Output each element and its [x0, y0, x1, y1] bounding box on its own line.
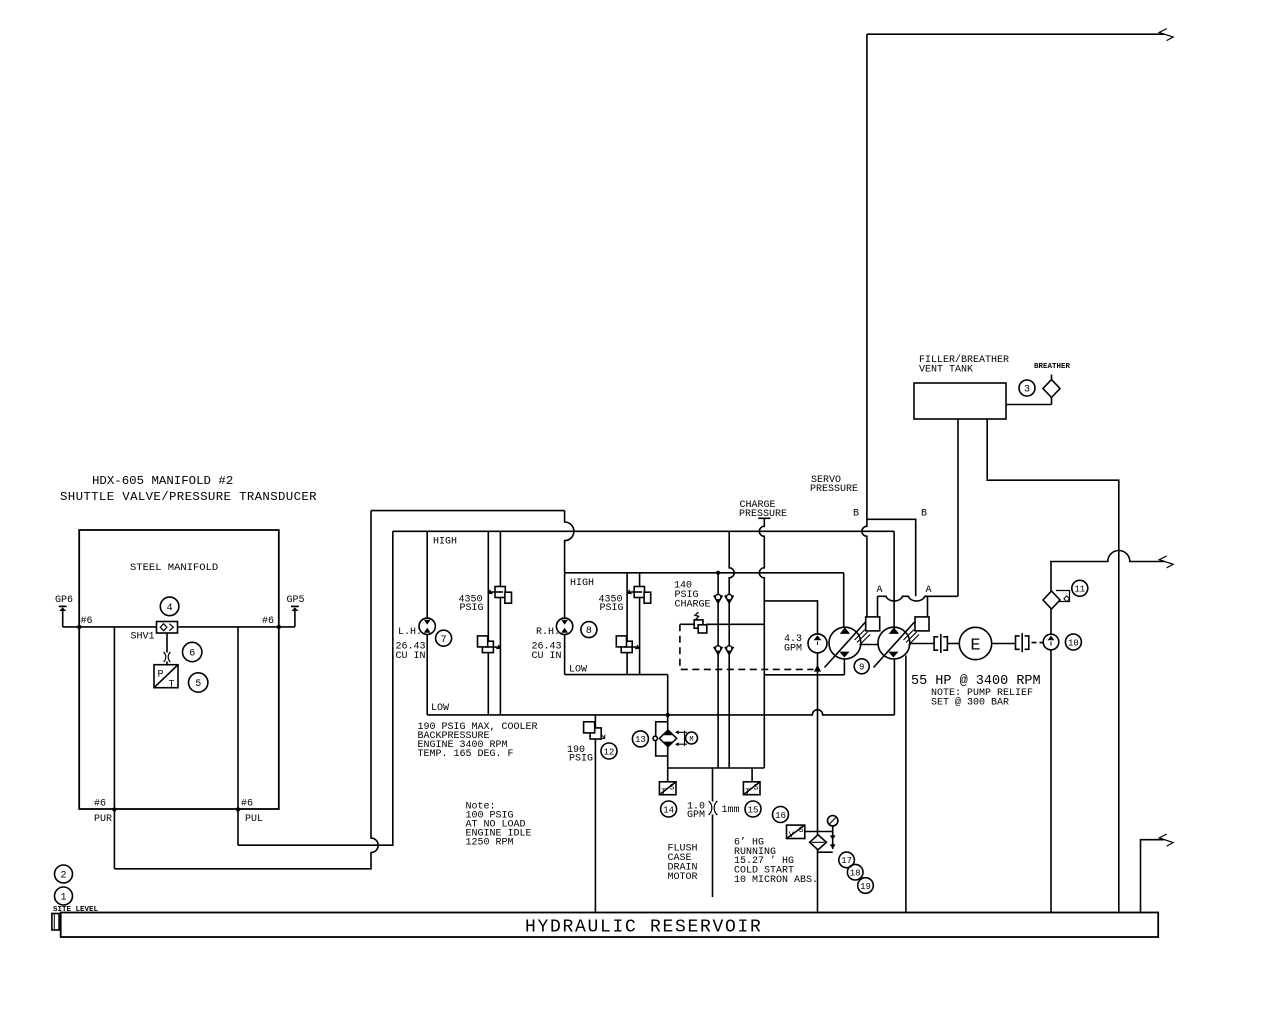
shuttle valve SHV1 — [157, 622, 178, 634]
svg-text:PSIG: PSIG — [569, 754, 593, 765]
breather symbol — [1043, 375, 1060, 405]
svg-text:SHV1: SHV1 — [131, 632, 155, 643]
check valve B1 — [725, 594, 733, 602]
svg-text:1: 1 — [60, 893, 66, 904]
svg-text:GP5: GP5 — [287, 595, 305, 606]
wire tank to A line x958 — [957, 419, 959, 596]
wire GP5 port line right — [178, 626, 295, 628]
cooler diamond — [653, 730, 677, 748]
svg-text:10: 10 — [1068, 638, 1079, 648]
wire main high line y531 from PUL riser to pump2 drop with hops — [393, 530, 894, 532]
wire coupling1 to E motor — [947, 643, 959, 645]
filler breather vent tank box — [914, 383, 1006, 419]
relief valve cooler bypass 12 — [584, 715, 605, 913]
wire charge pressure line x764.3 with hops — [759, 518, 764, 768]
wire breather to tank — [1006, 404, 1052, 406]
svg-text:VENT TANK: VENT TANK — [919, 365, 973, 376]
relief valve RH bottom — [616, 636, 640, 653]
port GP6 symbol — [55, 595, 73, 627]
charge pressure tick — [758, 517, 770, 519]
wire low line y715 — [427, 710, 894, 715]
wire charge pump suction — [817, 653, 819, 675]
electric motor E — [959, 627, 991, 659]
wire check line A x718.1 — [717, 573, 719, 768]
svg-text:SET @ 300 BAR: SET @ 300 BAR — [931, 697, 1009, 709]
aux pump 10 — [1043, 634, 1059, 650]
svg-text:SHUTTLE VALVE/PRESSURE TRANSDU: SHUTTLE VALVE/PRESSURE TRANSDUCER — [60, 490, 317, 504]
wire GP6 port line left — [63, 626, 157, 628]
svg-text:STEEL MANIFOLD: STEEL MANIFOLD — [130, 562, 218, 574]
hydraulic reservoir — [61, 913, 1159, 938]
svg-text:M: M — [689, 736, 693, 744]
label CHARGE PRESSURE — [739, 500, 787, 520]
svg-text:#6: #6 — [241, 799, 253, 810]
label 4350 PSIG LH — [459, 595, 484, 615]
balloon 19 — [858, 878, 874, 894]
svg-text:16: 16 — [775, 811, 786, 821]
label 26.43 CU IN LH — [396, 642, 426, 663]
svg-text:PRESSURE: PRESSURE — [810, 484, 858, 495]
wire A hose line y596.3 wavy — [878, 596, 958, 601]
svg-text:2: 2 — [60, 871, 66, 882]
junction dot low x cooler — [666, 713, 670, 717]
orifice on transducer line — [164, 652, 171, 662]
svg-text:S: S — [670, 783, 675, 792]
svg-text:19: 19 — [860, 882, 871, 892]
wire tank drain x987 to reservoir — [987, 419, 1119, 913]
wire RH loop top edge y572.8 with hops — [565, 572, 844, 574]
label 1.0 GPM — [687, 802, 705, 822]
pilot drain arrow at case line — [814, 665, 821, 672]
svg-text:3: 3 — [1024, 385, 1030, 396]
wire E motor to coupling2 — [992, 643, 1016, 645]
balloon 4 — [160, 597, 179, 616]
temp switch TS2 — [743, 782, 760, 797]
check valve A2 — [714, 646, 722, 654]
wire PUL bottom run with hop over PUR riser — [238, 531, 393, 845]
fan motor M — [675, 730, 698, 746]
label 4350 PSIG RH — [599, 595, 624, 615]
wire charge tap branch to charge pump — [764, 601, 817, 634]
svg-text:S: S — [799, 826, 804, 835]
motor LH circle — [419, 618, 435, 634]
label 190 PSIG at relief 12 — [567, 745, 593, 765]
svg-text:1mm: 1mm — [722, 805, 740, 816]
wire LH relief line a — [487, 531, 489, 715]
svg-text:GPM: GPM — [784, 644, 802, 655]
svg-text:PUL: PUL — [245, 814, 263, 825]
balloon 18 — [847, 864, 863, 880]
balloon 5 — [189, 673, 208, 692]
wire pump1 top feed x843.7 — [843, 573, 845, 628]
svg-text:BREATHER: BREATHER — [1034, 363, 1071, 371]
label 4.3 GPM — [784, 634, 802, 655]
cooler bracket — [656, 722, 668, 756]
junction dot at manifold right edge — [277, 625, 281, 629]
svg-text:7: 7 — [441, 635, 447, 646]
balloon 17 — [839, 852, 855, 868]
junction dot check line A — [716, 571, 720, 575]
svg-text:TEMP. 165 DEG. F: TEMP. 165 DEG. F — [418, 749, 514, 760]
svg-text:B: B — [921, 509, 927, 520]
svg-text:P: P — [158, 670, 164, 681]
svg-text:A: A — [926, 585, 932, 596]
svg-text:#6: #6 — [81, 616, 93, 627]
balloon 8 — [581, 622, 597, 638]
wire TS1 stub — [667, 768, 669, 782]
wire VS to gauge branch — [805, 831, 833, 833]
wire coupling2 dash to aux pump — [1032, 642, 1044, 644]
wire pump2 case drain x905.9 — [905, 656, 907, 913]
check valve A1 — [714, 594, 722, 602]
balloon 2 — [55, 865, 73, 883]
wire flush drop x712.5 — [712, 768, 714, 897]
junction dot at manifold left edge — [77, 625, 81, 629]
label 140 PSIG CHARGE — [674, 581, 711, 611]
wire LH motor to low line — [426, 634, 428, 715]
relief valve LH bottom — [478, 636, 502, 653]
svg-text:15: 15 — [748, 805, 759, 815]
wire LH motor drop from high line — [426, 531, 428, 618]
port GP5 symbol — [287, 595, 305, 627]
wire pump1 bottom drop — [843, 659, 845, 675]
charge relief valve — [694, 612, 707, 633]
wire B jumper to x915.7 — [867, 519, 916, 596]
check valve B2 — [725, 646, 733, 654]
svg-text:#6: #6 — [262, 616, 274, 627]
svg-text:CU IN: CU IN — [532, 651, 562, 662]
svg-text:HIGH: HIGH — [433, 537, 457, 548]
charge pump — [808, 634, 827, 653]
svg-text:V: V — [789, 831, 794, 840]
svg-text:B: B — [853, 509, 859, 520]
label 190 PSIG MAX COOLER note — [418, 722, 538, 760]
balloon 7 — [436, 630, 452, 646]
vacuum switch VS — [787, 825, 805, 840]
svg-text:#6: #6 — [94, 799, 106, 810]
svg-text:LOW: LOW — [431, 703, 449, 714]
svg-text:R.H.: R.H. — [536, 627, 560, 638]
svg-text:5: 5 — [195, 679, 201, 690]
junction dot PUR at manifold bottom — [112, 807, 116, 811]
wire RH relief line a — [626, 573, 628, 675]
balloon 10 — [1065, 634, 1081, 650]
svg-text:4: 4 — [167, 603, 173, 614]
wire filter up and over to break arrow — [1051, 551, 1164, 592]
label 26.43 CU IN RH — [532, 642, 562, 663]
pump P1 variable displacement — [825, 622, 871, 668]
port square pump1 — [866, 617, 880, 631]
vacuum filter diamond — [810, 835, 827, 850]
svg-text:T: T — [169, 680, 175, 691]
svg-text:12: 12 — [604, 747, 615, 757]
balloon 3 — [1019, 380, 1035, 396]
svg-text:PSIG: PSIG — [600, 603, 624, 614]
svg-text:PUR: PUR — [94, 814, 112, 825]
svg-text:8: 8 — [586, 626, 592, 637]
wire A stub to pump2 port — [927, 596, 929, 617]
balloon 16 — [773, 807, 789, 823]
pressure transducer P/T box — [154, 665, 178, 691]
label NOTE PUMP RELIEF — [931, 688, 1033, 709]
svg-text:T: T — [745, 788, 750, 797]
svg-text:PSIG: PSIG — [460, 603, 484, 614]
svg-text:17: 17 — [841, 856, 852, 866]
svg-text:L.H.: L.H. — [398, 627, 422, 638]
balloon 13 — [632, 731, 648, 747]
wire cooler column x667.7 — [667, 675, 669, 768]
wire flush manifold y768 — [668, 767, 765, 769]
svg-text:T: T — [661, 788, 666, 797]
svg-text:10 MICRON ABS.: 10 MICRON ABS. — [734, 875, 818, 886]
wire TS2 stub — [751, 768, 753, 782]
balloon 14 — [661, 801, 677, 817]
orifice 1mm on flush line — [709, 801, 718, 815]
pump P2 variable displacement — [874, 622, 920, 668]
wire PUL vertical inside manifold — [237, 627, 239, 845]
wire suction manifold y674.8 — [764, 674, 844, 676]
temp switch TS1 — [659, 782, 676, 797]
wire case drain column x817.5 — [817, 675, 819, 913]
servo pressure top line with break arrow — [867, 33, 1164, 35]
wire RH relief line b — [639, 573, 641, 675]
wire A stub to pump1 port — [877, 596, 879, 617]
relief valve RH top — [627, 587, 651, 604]
svg-text:CU IN: CU IN — [396, 651, 426, 662]
label FLUSH CASE DRAIN MOTOR — [668, 844, 698, 884]
svg-text:14: 14 — [663, 805, 674, 815]
label SERVO PRESSURE — [810, 475, 858, 495]
wire check line B x729.2 with hop over rh top edge — [729, 531, 734, 768]
break arrow mid right — [1159, 556, 1173, 568]
svg-text:E: E — [970, 637, 980, 656]
relief valve LH top — [488, 587, 512, 604]
site level gauge — [52, 914, 59, 931]
svg-text:GP6: GP6 — [55, 595, 73, 606]
coupling 1 — [934, 634, 947, 653]
wire PUR bottom run to riser — [114, 511, 378, 869]
wire servo vertical x866.9 with hop over y531 — [862, 34, 867, 617]
svg-text:A: A — [877, 585, 883, 596]
wire charge relief feed — [706, 623, 764, 625]
label 6 HG RUNNING block — [734, 837, 818, 887]
wire pump2 bottom riser from low line — [893, 659, 895, 715]
wire shaft p1 p2 — [861, 644, 878, 646]
motor RH circle — [556, 618, 572, 634]
vacuum gauge — [818, 816, 838, 853]
svg-text:HDX-605 MANIFOLD #2: HDX-605 MANIFOLD #2 — [92, 474, 233, 488]
balloon 12 — [601, 743, 617, 759]
balloon 6 — [183, 642, 202, 661]
dashed pilot drain line — [680, 624, 814, 669]
svg-text:1250 RPM: 1250 RPM — [466, 838, 514, 849]
svg-text:S: S — [754, 783, 759, 792]
svg-text:HIGH: HIGH — [570, 578, 594, 589]
svg-text:11: 11 — [1074, 585, 1085, 595]
wire LH relief line b — [499, 531, 501, 715]
wire SHV1 to transducer — [166, 633, 168, 665]
balloon 9 — [854, 659, 869, 674]
svg-text:HYDRAULIC RESERVOIR: HYDRAULIC RESERVOIR — [525, 918, 763, 938]
break arrow bottom right — [1159, 834, 1173, 846]
svg-text:13: 13 — [635, 735, 646, 745]
label #6 PUL — [241, 799, 263, 826]
break arrow top right — [1159, 29, 1173, 41]
svg-text:6: 6 — [189, 649, 195, 660]
balloon 11 — [1072, 580, 1088, 596]
wire aux pump suction — [1050, 650, 1052, 913]
balloon 15 — [745, 801, 761, 817]
wire pump2 top feed x894.1 — [893, 531, 895, 628]
port square pump2 — [915, 617, 929, 631]
filter F1 — [1043, 591, 1070, 610]
label Note 100 PSIG block — [466, 802, 532, 849]
wire PUR vertical inside manifold — [113, 627, 115, 869]
wire return to tank right x1140 — [1141, 840, 1165, 913]
wire RH loop bottom edge — [565, 674, 668, 676]
label #6 PUR — [94, 799, 112, 826]
svg-text:MOTOR: MOTOR — [668, 872, 698, 883]
junction dot PUL at manifold bottom — [236, 807, 240, 811]
steel manifold box — [79, 530, 279, 809]
wire charge relief drain to dashed — [680, 623, 695, 625]
wire PUR top run to RH loop — [371, 510, 565, 512]
svg-text:9: 9 — [859, 663, 864, 673]
label FILLER/BREATHER VENT TANK — [919, 354, 1009, 376]
svg-text:18: 18 — [850, 869, 861, 879]
svg-text:CHARGE: CHARGE — [675, 600, 711, 611]
wire aux pump to filter — [1050, 609, 1052, 634]
coupling 2 — [1016, 633, 1029, 652]
wire pump2 to coupling1 — [910, 643, 934, 645]
wire RH loop left edge with hop over high line — [565, 511, 574, 675]
balloon 1 — [55, 887, 73, 905]
svg-text:55 HP @ 3400 RPM: 55 HP @ 3400 RPM — [911, 674, 1041, 689]
svg-text:GPM: GPM — [687, 810, 705, 821]
